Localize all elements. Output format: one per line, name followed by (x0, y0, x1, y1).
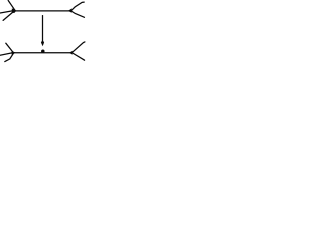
bottom-right branch upper (73, 42, 85, 52)
top-right branch lower (72, 11, 85, 17)
top-right arrowhead (68, 8, 72, 12)
bottom-left fan tail middle (0, 53, 12, 55)
bottom-right arrowhead (69, 51, 73, 55)
top-left arrowhead (12, 9, 16, 14)
vertical descent arrow shaft (42, 16, 44, 42)
top-left fan tail upper (8, 1, 15, 11)
bottom-left fan tail lower (5, 53, 14, 61)
top-left fan tail lower (3, 12, 13, 21)
bottom generation line (12, 52, 70, 54)
bottom-right branch lower (73, 53, 85, 60)
top-left fan tail middle (0, 11, 12, 13)
vertical descent arrowhead (41, 40, 44, 46)
bottom-left fan tail upper (6, 43, 14, 52)
top generation line (12, 10, 70, 12)
bottom-left arrowhead (12, 51, 16, 55)
junction dot (41, 50, 45, 54)
top-right branch upper (72, 2, 85, 10)
